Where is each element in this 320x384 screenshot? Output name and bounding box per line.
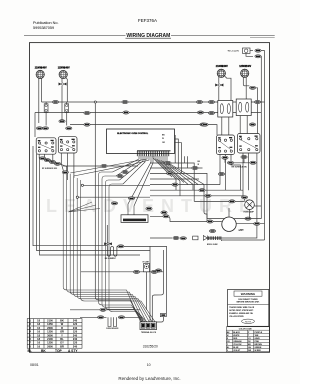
wire P4 lead a bbox=[243, 78, 249, 86]
wire top right down a bbox=[261, 51, 265, 240]
svg-text:PINK: PINK bbox=[255, 341, 260, 343]
infinite switch RF (left1) bbox=[36, 138, 56, 154]
mid right horizontal c bbox=[150, 195, 245, 197]
RF box to switch b bbox=[246, 116, 248, 134]
mid wire y166 bbox=[63, 165, 138, 167]
svg-text:GRAY: GRAY bbox=[255, 337, 261, 340]
EOC pin header comb bbox=[137, 151, 171, 156]
svg-text:R: R bbox=[61, 326, 63, 330]
box right edge to connector bbox=[166, 248, 168, 314]
terminal connector small bbox=[160, 314, 166, 317]
motor wire label bbox=[207, 220, 213, 223]
sensor row label a bbox=[100, 308, 106, 311]
svg-text:1250: 1250 bbox=[47, 341, 53, 345]
bundle feed label a bbox=[122, 170, 128, 173]
EOC stub BK bbox=[174, 135, 177, 163]
svg-text:2600: 2600 bbox=[47, 326, 53, 330]
bus N mid label bbox=[84, 111, 90, 114]
right edge wire to broil bbox=[222, 240, 265, 241]
svg-text:BR: BR bbox=[60, 344, 64, 348]
mid horizontal a bbox=[84, 184, 151, 186]
bake element bbox=[107, 246, 117, 256]
oval chain link wire bbox=[45, 159, 66, 172]
RR feed label right bbox=[202, 123, 208, 126]
lamp row wire bbox=[207, 218, 261, 220]
svg-text:W: W bbox=[162, 138, 164, 140]
warning box frame bbox=[228, 290, 269, 327]
RR box to switch a bbox=[221, 117, 223, 135]
mid right row 2 bbox=[150, 167, 203, 169]
svg-text:1250: 1250 bbox=[47, 322, 53, 326]
bus N horizontal bbox=[35, 112, 261, 114]
box edge oval label bbox=[155, 269, 161, 272]
wire P3 lead a cont bbox=[218, 86, 220, 100]
svg-text:240: 240 bbox=[73, 326, 78, 330]
mid right row 1 bbox=[150, 163, 194, 201]
bus L1 far right label bbox=[254, 100, 260, 103]
svg-text:1250: 1250 bbox=[47, 330, 53, 334]
svg-text:LEADVENTURE: LEADVENTURE bbox=[46, 196, 258, 216]
fan drop c bbox=[204, 185, 207, 219]
svg-text:240V: 240V bbox=[222, 65, 228, 68]
svg-text:OR: OR bbox=[60, 330, 64, 334]
door lock motor circle bbox=[222, 217, 236, 231]
bake exit label bbox=[118, 245, 124, 248]
bus L1 label c bbox=[196, 100, 202, 103]
svg-text:RED: RED bbox=[233, 338, 238, 340]
svg-text:BROIL ELEM: BROIL ELEM bbox=[207, 244, 218, 246]
RR box to switch b bbox=[228, 117, 230, 135]
left wire bundle to terminal block bbox=[63, 170, 155, 322]
wire P2 lead a bbox=[61, 78, 63, 82]
EOC stub W bbox=[175, 139, 179, 168]
ovl sw label c bbox=[146, 207, 152, 210]
oven light switch box bbox=[121, 215, 148, 223]
svg-text:240V: 240V bbox=[64, 66, 70, 69]
svg-text:OVEN LAMP: OVEN LAMP bbox=[243, 210, 254, 213]
junction node b bbox=[76, 196, 78, 198]
svg-text:YELLOW STRIPE.: YELLOW STRIPE. bbox=[229, 316, 244, 318]
warning note bubble bbox=[242, 319, 255, 323]
svg-text:GREEN: GREEN bbox=[255, 347, 262, 349]
mid right row 4 bbox=[150, 178, 199, 180]
plug connector box bbox=[243, 48, 251, 53]
sensor row bottom wire R bbox=[118, 316, 142, 318]
lead label row2 b bbox=[250, 161, 256, 164]
svg-text:Y: Y bbox=[61, 333, 63, 337]
bake element feed bbox=[106, 225, 108, 246]
L1 output wire b bbox=[45, 154, 48, 160]
wire top right down b bbox=[260, 56, 262, 218]
lamp right wire bbox=[254, 205, 261, 207]
svg-text:NOTED FIRST, STRIPE NEXT.: NOTED FIRST, STRIPE NEXT. bbox=[229, 310, 254, 312]
svg-text:W-RED: W-RED bbox=[255, 350, 262, 352]
below switch link wire bbox=[225, 159, 250, 163]
lamp row link bbox=[194, 200, 245, 202]
infinite switch RR (right1) bbox=[217, 135, 235, 155]
bus L1 label a bbox=[52, 100, 58, 103]
P4 lead oval bbox=[250, 86, 256, 89]
surface unit P4 (right front) bbox=[239, 65, 251, 77]
row 3 label bbox=[167, 172, 173, 175]
header rule left bbox=[24, 35, 126, 37]
svg-text:TOD: TOD bbox=[240, 230, 245, 232]
svg-text:TAN: TAN bbox=[255, 334, 259, 337]
sensor row top wire bbox=[70, 309, 140, 311]
mid right horizontal b bbox=[150, 189, 243, 191]
wire P3 lead a bbox=[218, 77, 220, 84]
lower box top edge bbox=[150, 246, 167, 247]
bus L1 horizontal bbox=[42, 101, 265, 103]
limiter block a bbox=[44, 104, 48, 112]
svg-text:2100: 2100 bbox=[47, 318, 53, 322]
bus N label a bbox=[123, 111, 129, 114]
svg-text:RR SURFACE SW.: RR SURFACE SW. bbox=[232, 165, 248, 168]
svg-text:BK: BK bbox=[41, 349, 46, 353]
warning divider bbox=[228, 303, 269, 305]
bus L1 label b bbox=[122, 100, 128, 103]
svg-text:COLOR CODE: COLOR CODE bbox=[239, 329, 253, 331]
hi-limit row label b bbox=[151, 270, 157, 273]
mid wire y166 label bbox=[101, 164, 107, 167]
svg-text:Publication No.: Publication No. bbox=[33, 21, 59, 25]
mid right horizontal a bbox=[150, 184, 220, 186]
mid label c bbox=[205, 194, 211, 197]
lamp row right label bbox=[245, 217, 251, 220]
svg-text:2600: 2600 bbox=[47, 344, 53, 348]
svg-text:NOTE: NOTE bbox=[245, 321, 252, 323]
wire P4 lead b bbox=[245, 77, 247, 99]
bus N label b bbox=[197, 111, 203, 114]
svg-text:BK: BK bbox=[60, 318, 64, 322]
bundle feed label b bbox=[117, 174, 123, 177]
wire P1 lead b bbox=[41, 78, 43, 102]
svg-text:BK ELEMENT: BK ELEMENT bbox=[105, 258, 117, 260]
svg-text:240: 240 bbox=[73, 344, 78, 348]
mid horizontal b bbox=[78, 196, 150, 198]
svg-text:BLACK: BLACK bbox=[233, 331, 240, 334]
RF box to switch a bbox=[239, 116, 241, 134]
left drop from bus bbox=[34, 113, 36, 138]
lead label below L1 a bbox=[39, 157, 45, 160]
switch label L1b bbox=[42, 127, 48, 130]
lower box left edge bbox=[149, 246, 151, 321]
motor top wire bbox=[228, 208, 230, 217]
sensor row bottom wire L bbox=[80, 316, 107, 318]
surface unit P1 (left front) bbox=[35, 66, 47, 78]
header rule right bbox=[171, 35, 275, 37]
warning title frame bbox=[234, 291, 262, 296]
surface unit P3 (right rear) bbox=[216, 65, 228, 77]
lamp label upper bbox=[241, 196, 247, 199]
svg-text:5995387059: 5995387059 bbox=[33, 26, 54, 30]
svg-text:HI LIMIT: HI LIMIT bbox=[143, 261, 151, 263]
wire P3 lead b bbox=[225, 77, 231, 101]
svg-text:FEF376A: FEF376A bbox=[138, 18, 157, 23]
svg-text:WHITE: WHITE bbox=[233, 335, 240, 337]
svg-text:BL: BL bbox=[28, 349, 32, 353]
svg-text:TERMINAL BLOCK: TERMINAL BLOCK bbox=[141, 331, 157, 334]
lead label below L1 c bbox=[49, 160, 55, 163]
fan drop a bbox=[175, 179, 177, 190]
R1 output wire b bbox=[225, 155, 227, 191]
motor wire label upper bbox=[163, 215, 169, 218]
svg-text:ORANGE: ORANGE bbox=[233, 340, 242, 343]
svg-text:BL: BL bbox=[60, 337, 64, 341]
main diagram border bbox=[30, 43, 270, 353]
far left wire c bbox=[40, 158, 141, 255]
row 2 label bbox=[192, 166, 198, 169]
svg-text:08/01: 08/01 bbox=[30, 363, 39, 367]
element box RF bbox=[236, 99, 251, 116]
inner wire to terminal jog bbox=[152, 250, 163, 322]
wire P2 lead a cont bbox=[61, 86, 63, 120]
infinite switch LR (right2) bbox=[238, 134, 261, 154]
svg-text:TOP: TOP bbox=[55, 349, 63, 353]
lead label low bbox=[218, 172, 224, 175]
R2 output wire c bbox=[222, 153, 257, 238]
broil diode symbol bbox=[203, 236, 207, 241]
limiter block b bbox=[65, 104, 69, 112]
svg-text:WARNING: WARNING bbox=[241, 292, 256, 296]
R1 output wire a bbox=[219, 155, 221, 185]
svg-text:A STY: A STY bbox=[68, 349, 78, 353]
thermal limiter P3 bbox=[215, 84, 223, 87]
thermal limiter P2 bbox=[59, 83, 67, 86]
bus L1 right label bbox=[208, 100, 214, 103]
L2 output wire b bbox=[67, 153, 69, 180]
bake element exit wire bbox=[117, 245, 150, 247]
svg-text:120: 120 bbox=[73, 322, 78, 326]
mid label a bbox=[172, 183, 178, 186]
hi-limit lead down bbox=[146, 272, 148, 310]
lamp row label bbox=[229, 200, 235, 203]
svg-text:316255/20: 316255/20 bbox=[143, 345, 158, 349]
switch label L1a bbox=[36, 127, 42, 130]
lamp bottom wire bbox=[249, 210, 251, 219]
fan drop d bbox=[192, 185, 194, 191]
electronic oven control box bbox=[107, 129, 175, 154]
junction drop wire bbox=[95, 103, 142, 322]
svg-text:10: 10 bbox=[147, 363, 151, 367]
ovl sw label d bbox=[161, 211, 167, 214]
wire P2 lead b bbox=[66, 78, 68, 102]
svg-text:3000: 3000 bbox=[47, 333, 53, 337]
wire to RR switch feed bbox=[70, 125, 217, 135]
svg-text:BLUE: BLUE bbox=[233, 347, 239, 349]
mid right row 3 bbox=[150, 173, 207, 221]
svg-text:TRACER WIRE: WIRE COLOR: TRACER WIRE: WIRE COLOR bbox=[229, 306, 255, 309]
svg-text:240: 240 bbox=[73, 333, 78, 337]
svg-text:240: 240 bbox=[73, 318, 78, 322]
wire P4 lead a cont2 bbox=[256, 88, 258, 134]
wire P1 lead a bbox=[38, 78, 40, 123]
svg-text:OVEN SENSOR: OVEN SENSOR bbox=[106, 328, 119, 330]
block b to switch bbox=[66, 112, 68, 125]
svg-text:BROWN: BROWN bbox=[255, 344, 263, 346]
lamp feed wire bbox=[244, 196, 246, 201]
lead label row2 a bbox=[227, 161, 233, 164]
svg-text:VIOLET: VIOLET bbox=[233, 350, 241, 352]
svg-text:DISCONNECT POWER: DISCONNECT POWER bbox=[238, 299, 258, 301]
switch label L2b bbox=[66, 127, 72, 130]
R2 output wire b bbox=[248, 153, 250, 190]
lead label below R2 bbox=[241, 155, 247, 158]
wire plug bottom bbox=[246, 53, 253, 56]
junction node a bbox=[81, 184, 83, 186]
wire label top right a bbox=[255, 49, 261, 52]
infinite switch LF (left2) bbox=[58, 137, 77, 153]
switch label R2a bbox=[249, 123, 255, 126]
svg-text:240: 240 bbox=[73, 337, 78, 341]
extra drop right a bbox=[184, 156, 186, 163]
svg-text:240V: 240V bbox=[41, 66, 47, 69]
title underline bbox=[126, 37, 172, 39]
EOC stub OR bbox=[175, 143, 182, 174]
broil fuse block bbox=[193, 236, 198, 240]
terminal block bbox=[140, 322, 157, 330]
svg-text:GY: GY bbox=[60, 341, 64, 345]
bus N right label bbox=[208, 111, 214, 114]
mid label b bbox=[199, 189, 205, 192]
legend table bold footer bbox=[28, 349, 79, 353]
L1 output wire a bbox=[38, 154, 40, 158]
svg-text:W: W bbox=[227, 335, 229, 337]
oven lamp bbox=[245, 200, 255, 210]
switch label L2a bbox=[59, 120, 65, 123]
bundle convergence chevron bbox=[69, 202, 101, 212]
fan drop b bbox=[179, 181, 181, 196]
broil label b bbox=[180, 237, 186, 240]
EOC harness fan-out bbox=[70, 156, 204, 215]
bundle label top bbox=[62, 171, 68, 174]
far left wire a bbox=[33, 146, 107, 246]
svg-text:120: 120 bbox=[73, 341, 78, 345]
block a feed bbox=[45, 102, 47, 104]
R1 output wire c bbox=[231, 155, 241, 191]
svg-text:PURPLE: PURPLE bbox=[255, 332, 263, 334]
svg-text:ELECTRONIC OVEN CONTROL: ELECTRONIC OVEN CONTROL bbox=[117, 133, 149, 135]
block b feed bbox=[66, 102, 68, 104]
broil label a bbox=[173, 236, 179, 239]
svg-text:Rendered by LeadVenture, Inc.: Rendered by LeadVenture, Inc. bbox=[118, 376, 180, 381]
sensor label b bbox=[98, 316, 104, 319]
R2 output wire a bbox=[242, 153, 244, 196]
svg-text:EXAMPLE: GREEN AND YEL: EXAMPLE: GREEN AND YEL bbox=[229, 312, 254, 315]
color code table bbox=[226, 327, 269, 352]
svg-text:TO L1 and N: TO L1 and N bbox=[228, 51, 240, 53]
motor right row wire bbox=[237, 223, 265, 225]
terminal connector drop bbox=[157, 317, 164, 322]
svg-text:120: 120 bbox=[73, 330, 78, 334]
L1 output wire c bbox=[52, 154, 54, 162]
bake limiter bowtie bbox=[104, 242, 112, 245]
lead label below R1 bbox=[222, 156, 228, 159]
element box RR bbox=[218, 101, 233, 118]
row 1 label bbox=[165, 161, 171, 164]
switch label R1a bbox=[200, 123, 206, 126]
RR feed label left bbox=[84, 123, 90, 126]
ovl sw label b bbox=[111, 202, 117, 205]
L2 output wire a bbox=[61, 153, 63, 170]
title rule right ext bbox=[250, 36, 275, 38]
L2 output wire c bbox=[73, 153, 75, 178]
block a to switch bbox=[45, 112, 47, 125]
far left wire b bbox=[37, 154, 151, 251]
lead label below L1 b bbox=[44, 159, 50, 162]
svg-text:2100: 2100 bbox=[47, 337, 53, 341]
center wire bundle bbox=[99, 172, 147, 322]
wire plug to right edge bbox=[250, 50, 253, 52]
surface unit P2 (left rear) bbox=[58, 66, 70, 78]
extra drop right b bbox=[187, 156, 189, 168]
lead label below L1 d bbox=[54, 162, 60, 165]
svg-text:240V: 240V bbox=[246, 65, 252, 68]
broil feed wire bbox=[150, 237, 172, 239]
wire gauge legend table bbox=[27, 319, 82, 349]
hi-limit row wire bbox=[81, 271, 164, 273]
motor row label bbox=[254, 222, 260, 225]
ovl sw label a bbox=[128, 197, 134, 200]
wire label top right b bbox=[255, 55, 261, 58]
svg-text:RF SURFACE SW.: RF SURFACE SW. bbox=[42, 167, 58, 170]
hi-limit component bbox=[144, 264, 150, 272]
broil element hatched bar bbox=[208, 236, 222, 240]
svg-text:YELLOW: YELLOW bbox=[233, 344, 241, 346]
sensor label c bbox=[118, 316, 124, 319]
broil label c bbox=[209, 229, 215, 232]
hi-limit row label a bbox=[133, 270, 139, 273]
motor left wire bbox=[150, 216, 222, 221]
svg-text:BEFORE SERVICING UNIT.: BEFORE SERVICING UNIT. bbox=[237, 302, 260, 304]
bus junction node bbox=[94, 101, 96, 103]
oven sensor probe bbox=[108, 317, 117, 326]
